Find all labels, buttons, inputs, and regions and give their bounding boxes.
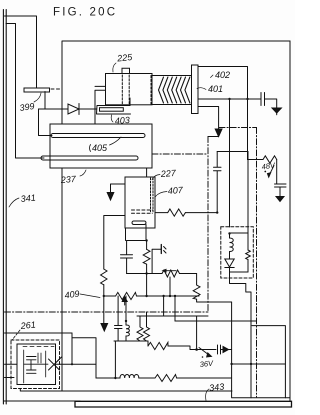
node dot xyxy=(246,98,248,100)
wire y364 xyxy=(232,363,286,365)
resistor R6 vertical xyxy=(137,316,143,341)
wire to bus xyxy=(177,377,232,379)
label 261 xyxy=(19,319,36,331)
wire 227 left to ground arrow xyxy=(111,184,126,193)
wire top-left to electrode xyxy=(5,16,37,88)
bottom frame line xyxy=(4,400,80,402)
wire riser x72 xyxy=(71,333,73,364)
chassis arrow xyxy=(215,129,222,137)
36V arrow xyxy=(199,348,209,356)
label 399 xyxy=(19,101,35,113)
exit wire staircase xyxy=(230,272,252,398)
svg-text:399: 399 xyxy=(19,101,35,113)
leader 401 xyxy=(197,88,206,90)
svg-text:225: 225 xyxy=(116,52,134,64)
vertical wires below y296 xyxy=(164,296,197,350)
tube 401 chevron hatching xyxy=(159,77,190,103)
wire 261 module to coil circuit xyxy=(56,364,97,378)
dashed column 407 xyxy=(150,178,152,212)
module 261 inner box xyxy=(17,344,56,385)
leader 402 xyxy=(211,75,214,78)
wire crystal down xyxy=(145,225,147,241)
node dot xyxy=(169,295,171,297)
label 36V xyxy=(199,356,214,369)
wire to bar1 xyxy=(39,109,53,136)
leader 227 xyxy=(152,175,160,180)
svg-text:341: 341 xyxy=(20,192,36,204)
dashed rows in 227 xyxy=(132,209,153,211)
wire 227 left to resistor R409 xyxy=(104,216,125,270)
diode CR1 xyxy=(68,104,79,115)
leader 399 xyxy=(34,93,41,102)
resistor R2 branch xyxy=(146,241,148,250)
svg-text:405: 405 xyxy=(92,143,108,153)
wire plate output y99 xyxy=(198,98,261,100)
box 405 xyxy=(50,124,152,168)
resistor R1 right of 227 xyxy=(155,212,168,214)
wire riser x115.4 xyxy=(114,341,116,378)
wire to zener right branch xyxy=(247,152,249,234)
dashed stub electrode to enclosure xyxy=(51,88,62,90)
resistor R10 horizontal xyxy=(155,375,177,382)
wire to terminal tick xyxy=(152,249,161,273)
box 227 xyxy=(125,177,155,228)
module 261 inner contacts row xyxy=(23,346,54,348)
node dot xyxy=(145,272,147,274)
resistor R48 48V xyxy=(248,159,264,161)
wire electrode to diode xyxy=(39,92,69,110)
wire coil to resistor xyxy=(139,377,155,379)
page left edge double line xyxy=(3,10,6,405)
wire plate-top feed to 48V xyxy=(198,67,248,160)
top node wire xyxy=(230,232,249,234)
base plate pedestal xyxy=(75,401,292,407)
wire resistor down xyxy=(103,285,105,324)
label 409 xyxy=(64,288,80,300)
wire diode to 403 xyxy=(79,108,97,110)
bar1 in 405 xyxy=(51,134,145,138)
wire 405 to 227 xyxy=(146,168,148,177)
bar2 in 405 xyxy=(41,156,138,160)
leader 341 xyxy=(9,198,19,207)
variable X arrow xyxy=(49,359,60,370)
leader 237 xyxy=(80,170,86,176)
wire stubs into block 225 xyxy=(95,86,106,124)
node wire RC top xyxy=(127,240,147,242)
svg-text:343: 343 xyxy=(209,381,225,393)
wire cap to ground xyxy=(265,99,277,108)
node dots on y296 xyxy=(103,295,105,297)
potentiometer R3 xyxy=(127,273,162,275)
leader 343 xyxy=(206,389,209,401)
module 261 inner rails xyxy=(24,350,46,383)
dashed leader 261 xyxy=(12,330,20,340)
leader 403 xyxy=(111,115,113,122)
wire R5 to bus xyxy=(197,299,232,302)
svg-text:FIG. 20C: FIG. 20C xyxy=(53,7,117,19)
svg-text:409: 409 xyxy=(64,288,80,300)
wire 261 bottom to enclosure xyxy=(20,389,62,392)
chain line horizontal at 405 xyxy=(152,153,208,155)
component 403 heater sandwich xyxy=(97,106,131,115)
node dot xyxy=(228,98,230,100)
bus wire into zener module xyxy=(229,99,231,227)
coil L1 vertical xyxy=(126,325,129,336)
node dots y364 xyxy=(230,363,232,365)
label 343 xyxy=(209,381,225,393)
resistor R8 horizontal xyxy=(147,341,149,346)
node wire y341 xyxy=(114,340,148,342)
wire 227 bottom left xyxy=(125,228,127,241)
svg-text:227: 227 xyxy=(159,168,177,179)
resistor R5 vertical xyxy=(196,274,198,286)
leader 407 xyxy=(156,192,168,197)
wire R8 to 36V node xyxy=(168,346,216,350)
node dot xyxy=(228,232,230,234)
module 261 inner plates xyxy=(38,353,41,363)
wire RC node down xyxy=(146,274,148,297)
capacitor C5 drop xyxy=(214,152,222,213)
chain horizontal right top xyxy=(219,127,257,129)
ground arrow right xyxy=(276,197,284,202)
ground arrow left of 227 xyxy=(107,193,114,201)
label 402 xyxy=(215,70,230,80)
bottom edge right section xyxy=(232,397,290,399)
ground arrow bottom left xyxy=(101,324,108,332)
wire riser top link xyxy=(72,338,96,365)
zener diode CR2 xyxy=(225,259,234,268)
resistor R9 in module xyxy=(247,233,249,250)
label 48V xyxy=(261,161,276,173)
small up arrow xyxy=(124,299,126,305)
bus wire x231.6 xyxy=(231,302,233,398)
capacitor C2 branch xyxy=(121,241,133,274)
node dot 36V xyxy=(195,348,198,351)
stub arrow to chain xyxy=(208,136,218,138)
svg-text:261: 261 xyxy=(19,319,36,331)
label 401 xyxy=(208,84,223,94)
module 261 inner capacitor plates xyxy=(27,357,37,374)
label 227 xyxy=(159,168,177,179)
wire stubs from frame to 261 xyxy=(5,364,18,377)
wire y325.6 xyxy=(252,326,285,398)
wire left bus to bar2 xyxy=(6,24,44,159)
svg-text:407: 407 xyxy=(167,185,184,196)
crystal element in 227 xyxy=(132,221,146,225)
enclosure box 341 outline xyxy=(62,41,290,401)
48V arrow xyxy=(270,166,274,174)
leader 409 xyxy=(80,294,100,298)
module 261 dashed box xyxy=(11,340,60,389)
resistor R7 vertical xyxy=(144,312,150,341)
label 405 xyxy=(92,143,108,153)
electrode 399 xyxy=(24,88,50,92)
resistor R409 xyxy=(101,269,107,285)
wire to coil xyxy=(96,377,120,379)
svg-text:36V: 36V xyxy=(199,359,214,369)
label 407 xyxy=(167,185,184,196)
capacitor C3 below chain xyxy=(115,296,123,341)
frame stub y333 xyxy=(5,332,73,334)
node dot xyxy=(145,239,147,241)
leader 405 xyxy=(90,145,91,152)
dashed internal walls 225 xyxy=(121,75,123,104)
node dot xyxy=(216,211,218,213)
bus wire y296 with resistor R4 xyxy=(104,295,116,297)
chain horizontal bottom xyxy=(5,311,209,313)
leader 225 xyxy=(113,63,116,72)
chain vertical right xyxy=(256,128,258,398)
chain line vertical mid xyxy=(207,137,209,313)
wire coil feed xyxy=(125,296,127,325)
ground top-right xyxy=(272,108,281,113)
flange plate 402 xyxy=(192,65,199,114)
capacitor C6 to ground xyxy=(275,184,287,197)
wire y151.5 xyxy=(217,151,248,153)
svg-text:401: 401 xyxy=(208,84,223,94)
bus wires y316 y321 xyxy=(137,316,257,321)
wire plate lower to chassis arrow xyxy=(198,107,219,130)
label 225 xyxy=(116,52,134,64)
node dot xyxy=(125,320,127,322)
center tap wire xyxy=(169,277,171,296)
label 403 xyxy=(114,115,130,126)
label 341 xyxy=(20,192,36,204)
capacitor C4 with arrow xyxy=(218,345,224,354)
tube 401 body xyxy=(152,76,192,105)
label 237 xyxy=(59,174,77,185)
bottom node wire xyxy=(230,271,249,273)
svg-text:237: 237 xyxy=(59,174,77,185)
capacitor C1 top right xyxy=(261,93,265,106)
zener module dashed box xyxy=(221,227,254,278)
wiper arrow xyxy=(166,270,176,272)
terminal bump on 225 xyxy=(122,68,130,73)
coil L2 in module xyxy=(230,238,234,252)
module 261 inner node wire xyxy=(24,363,48,365)
svg-text:402: 402 xyxy=(215,70,230,80)
terminal tick xyxy=(160,245,162,254)
coil L3 horizontal xyxy=(120,374,139,378)
block 225 gun body xyxy=(106,74,153,105)
node dot xyxy=(114,377,116,379)
